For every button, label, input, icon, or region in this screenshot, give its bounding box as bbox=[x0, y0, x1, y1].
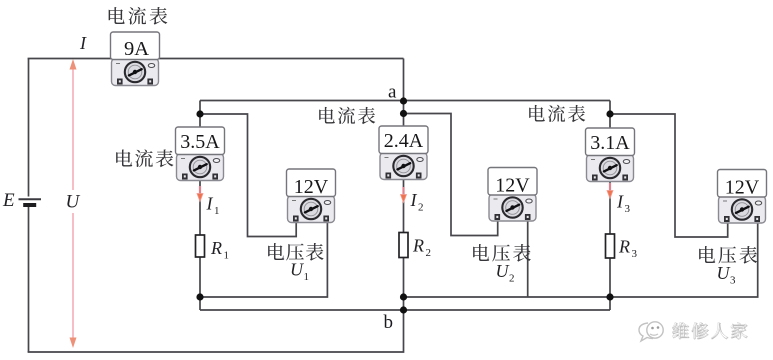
wire: branch 1 ammeter to R1 bbox=[199, 179, 201, 235]
battery E: long positive plate bbox=[19, 198, 42, 200]
svg-text:2: 2 bbox=[509, 273, 515, 285]
resistor R2 bbox=[399, 233, 408, 258]
ammeter A main (9A) bbox=[111, 32, 160, 86]
svg-text:I: I bbox=[79, 33, 87, 53]
svg-text:3.5A: 3.5A bbox=[180, 131, 220, 153]
label: ammeter text branch3 bbox=[529, 105, 585, 122]
label: total current I bbox=[79, 33, 87, 53]
label: voltage U bbox=[66, 192, 81, 213]
label: node a bbox=[388, 82, 397, 103]
label: branch voltage U1 bbox=[290, 260, 309, 284]
svg-text:E: E bbox=[2, 190, 15, 211]
label: resistor R2 value bbox=[412, 236, 431, 260]
current arrow I3 bbox=[607, 183, 613, 199]
junction dot branch1 bottom (200,297) bbox=[196, 293, 203, 300]
svg-text:a: a bbox=[388, 82, 397, 103]
label: ammeter text top (dianliubiao) bbox=[109, 7, 168, 25]
voltmeter V3 (12V) bbox=[718, 170, 767, 224]
wire: b-line right with V2 and V3 negative leads bbox=[404, 218, 758, 297]
svg-text:12V: 12V bbox=[495, 175, 530, 197]
label: branch voltage U2 bbox=[496, 261, 515, 285]
ammeter A1 (3.5A) bbox=[176, 127, 225, 181]
svg-text:3: 3 bbox=[625, 203, 631, 215]
label: branch current I3 bbox=[616, 192, 631, 216]
resistor R3 bbox=[606, 234, 615, 258]
svg-text:3.1A: 3.1A bbox=[590, 132, 630, 154]
svg-text:12V: 12V bbox=[725, 177, 760, 199]
label: branch voltage U3 bbox=[717, 263, 737, 287]
voltmeter V1 (12V) bbox=[287, 169, 336, 223]
svg-text:R: R bbox=[618, 237, 630, 257]
label: branch current I2 bbox=[410, 190, 424, 214]
label: ammeter text branch2 bbox=[319, 107, 375, 124]
watermark text weixiurenjia bbox=[672, 322, 747, 339]
node b junction dot (403.5,297) bbox=[400, 293, 407, 300]
svg-text:12V: 12V bbox=[294, 176, 329, 198]
label: voltmeter text branch2 bbox=[473, 244, 531, 262]
label: node b bbox=[384, 312, 394, 333]
label: resistor R3 value bbox=[618, 237, 638, 261]
wire: branch 1 corner drop from bus bbox=[199, 101, 201, 129]
wire: voltmeter V3 tap from node (610,114) bbox=[610, 114, 728, 237]
voltmeter V2 (12V) bbox=[488, 168, 537, 222]
current arrow I1 bbox=[197, 186, 203, 202]
svg-text:U: U bbox=[290, 260, 304, 280]
wire: outer loop left side bbox=[28, 59, 30, 353]
svg-text:I: I bbox=[410, 190, 418, 210]
wire: outer loop top from battery to node a corner bbox=[28, 58, 404, 60]
resistor R1 bbox=[196, 235, 205, 257]
svg-text:U: U bbox=[66, 192, 81, 213]
svg-text:I: I bbox=[616, 192, 624, 212]
wire: branch 2 R2 to node b bbox=[403, 258, 405, 310]
svg-text:U: U bbox=[717, 263, 731, 283]
wire: voltmeter V2 tap from node (403.5,113.5) bbox=[404, 114, 498, 236]
wire: outer loop bottom bbox=[28, 310, 404, 352]
svg-text:1: 1 bbox=[224, 250, 230, 262]
svg-text:I: I bbox=[206, 194, 214, 214]
wire: branch 3 R3 to b-line bbox=[609, 258, 611, 310]
svg-text:3: 3 bbox=[632, 248, 638, 260]
ammeter A3 (3.1A) bbox=[586, 128, 635, 182]
node b lower junction dot (403.5,310) bbox=[400, 306, 407, 313]
svg-text:U: U bbox=[496, 261, 510, 281]
current arrow I2 bbox=[401, 187, 407, 203]
battery E: short negative plate bbox=[23, 203, 36, 207]
svg-text:2: 2 bbox=[418, 202, 424, 214]
wire: voltmeter V1 tap from node (200,114) bbox=[200, 114, 296, 237]
wire: drop from top wire to node a and through ammeter A2 bbox=[403, 59, 405, 128]
svg-text:1: 1 bbox=[214, 205, 220, 217]
label: resistor R1 value bbox=[210, 238, 229, 262]
svg-text:3: 3 bbox=[730, 275, 736, 287]
watermark logo (weixiurenjia) bbox=[639, 322, 663, 341]
junction dot branch1 top (200,114) bbox=[196, 110, 203, 117]
label: ammeter text branch1 bbox=[116, 149, 173, 167]
junction dot branch3 bottom (610,297) bbox=[606, 293, 613, 300]
svg-text:2.4A: 2.4A bbox=[384, 130, 424, 152]
wire: branch 3 corner drop from bus bbox=[609, 101, 611, 129]
svg-text:b: b bbox=[384, 312, 394, 333]
wire: b-line lower bus from branch1 to branch3 bbox=[200, 309, 610, 311]
wire: branch 2 ammeter to R2 bbox=[403, 179, 405, 232]
label: source EMF E bbox=[2, 190, 15, 211]
junction dot branch2 top (403.5,113.5) bbox=[400, 110, 407, 117]
label: voltmeter text branch3 bbox=[699, 246, 757, 264]
label: branch current I1 bbox=[206, 194, 220, 218]
node a junction dot bbox=[400, 97, 407, 104]
svg-text:9A: 9A bbox=[124, 38, 149, 60]
wire: branch 3 ammeter to R3 bbox=[609, 181, 611, 234]
wire: branch 1 R1 to bottom corner bbox=[199, 257, 201, 310]
svg-text:2: 2 bbox=[426, 247, 432, 259]
junction dot branch3 top (610,114) bbox=[606, 110, 613, 117]
ammeter A2 (2.4A) bbox=[379, 126, 428, 180]
wire: top bus a-line bbox=[200, 100, 610, 102]
svg-text:R: R bbox=[412, 236, 424, 256]
label: voltmeter text branch1 (dianyabiao) bbox=[268, 243, 323, 261]
wire: voltmeter V1 negative lead to b-line bbox=[200, 219, 327, 297]
svg-text:1: 1 bbox=[304, 271, 310, 283]
svg-text:R: R bbox=[210, 238, 222, 258]
voltage arrow U (pink, double-headed) bbox=[70, 59, 77, 348]
